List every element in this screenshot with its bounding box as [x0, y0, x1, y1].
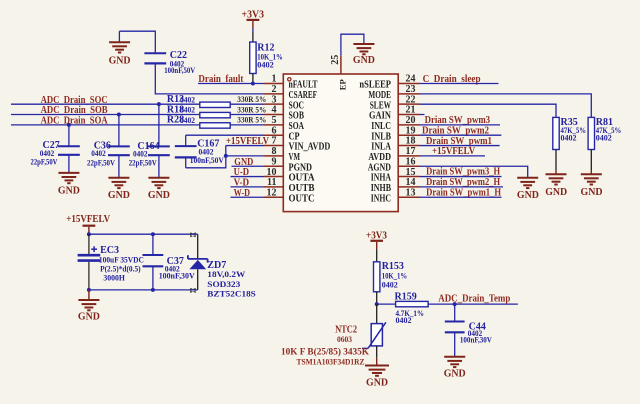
svg-text:GND: GND — [545, 187, 567, 198]
ground GND (EC3) — [78, 290, 100, 322]
junction SOA-C27 — [67, 123, 71, 127]
wire pin 17 — [420, 155, 485, 157]
svg-text:nFAULT: nFAULT — [289, 80, 318, 91]
svg-text:330R 5%: 330R 5% — [237, 95, 266, 104]
net label +15VFELV (pin 7) — [226, 136, 270, 147]
junction bottom-C37 — [151, 288, 155, 292]
svg-text:GND: GND — [517, 190, 539, 201]
svg-text:NTC2: NTC2 — [335, 324, 357, 335]
resistor R35 — [553, 117, 586, 170]
capacitor C44 — [445, 304, 493, 357]
junction SOC-C164 — [157, 102, 161, 106]
op-amp U? IC body — [283, 74, 398, 212]
svg-text:0402: 0402 — [382, 280, 398, 289]
ground GND (C164) — [148, 155, 170, 201]
resistor R18 — [167, 104, 266, 117]
ground GND (C44) — [444, 357, 466, 380]
svg-text:0402: 0402 — [561, 134, 577, 143]
svg-text:OUTA: OUTA — [289, 173, 316, 184]
svg-text:ADC_Drain_Temp: ADC_Drain_Temp — [438, 294, 510, 305]
svg-text:SOD323: SOD323 — [207, 279, 240, 289]
ground GND (EP) — [353, 44, 375, 66]
wire C167 top to pin 6 — [186, 134, 264, 136]
svg-text:GND: GND — [353, 55, 375, 66]
wire pin 16 (AGND) to GND — [420, 166, 528, 178]
svg-text:TSM1A103F34D1RZ: TSM1A103F34D1RZ — [297, 357, 365, 367]
net label Drain SW_pwm3_H — [426, 167, 500, 178]
wire pin 19 — [420, 134, 501, 136]
ground GND (AGND) — [517, 178, 539, 201]
svg-text:100nF,50V: 100nF,50V — [190, 155, 225, 165]
junction SOB-C36 — [117, 113, 121, 117]
wire pin 21 stub — [420, 114, 425, 116]
svg-text:23: 23 — [406, 84, 416, 95]
wire to pin 7 (+15VFELV) — [226, 145, 264, 147]
svg-text:22pF,50V: 22pF,50V — [87, 157, 116, 167]
net label V-D (pin 11) — [234, 178, 250, 189]
net label ADC_Drain_SOA — [41, 116, 109, 127]
svg-text:0402: 0402 — [180, 116, 195, 125]
power +15VFELV (EC3 rail) — [66, 214, 111, 234]
svg-text:14: 14 — [406, 177, 416, 188]
svg-text:EP: EP — [338, 79, 348, 90]
wire ADC_Drain_SOB — [11, 114, 200, 116]
net label Drain SW_pwm1_H — [426, 187, 501, 198]
wire EP to GND — [341, 34, 364, 55]
svg-text:22pF,50V: 22pF,50V — [129, 157, 158, 167]
resistor R159 — [377, 291, 428, 325]
svg-text:13: 13 — [406, 187, 416, 198]
wire ADC_Drain_SOA — [11, 124, 200, 126]
wire C22 to pin 2 — [155, 63, 264, 93]
wire C_Drain_sleep (pin 24) — [420, 83, 499, 85]
svg-text:GND: GND — [108, 190, 130, 201]
svg-text:18V,0.2W: 18V,0.2W — [207, 269, 246, 279]
ground GND (NTC2) — [365, 358, 389, 389]
svg-text:2: 2 — [272, 84, 277, 95]
wire C167 bottom jog — [186, 146, 226, 168]
resistor R28 — [167, 115, 266, 128]
junction pin8 node — [224, 154, 228, 158]
svg-text:INHA: INHA — [371, 173, 392, 184]
resistor R81 — [588, 117, 621, 170]
svg-text:330R 5%: 330R 5% — [237, 105, 266, 114]
wire GND to C22 — [119, 31, 155, 53]
junction bottom-EC3 — [87, 288, 91, 292]
pin 25 EP — [330, 55, 348, 90]
wire pin 14 — [420, 186, 503, 188]
capacitor C164 — [129, 104, 170, 167]
capacitor C27 — [31, 125, 80, 166]
svg-text:AGND: AGND — [368, 162, 391, 173]
ground GND (R81) — [581, 170, 603, 198]
resistor R13 — [167, 94, 266, 107]
wire ADC_Drain_SOC — [11, 103, 200, 105]
ground GND (C27) — [58, 155, 80, 197]
svg-text:330R 5%: 330R 5% — [237, 116, 266, 125]
junction R153-R159-NTC2 — [375, 302, 379, 306]
svg-text:100nF,30V: 100nF,30V — [460, 335, 493, 345]
net label Drian SW_pwm3 — [425, 115, 491, 126]
svg-text:11: 11 — [267, 177, 276, 188]
svg-text:GND: GND — [78, 311, 100, 322]
net label +15VFELV (pin 17) — [432, 146, 476, 157]
svg-text:nSLEEP: nSLEEP — [359, 80, 391, 91]
svg-text:0402: 0402 — [180, 106, 195, 115]
svg-text:7: 7 — [272, 136, 277, 147]
svg-text:R153: R153 — [382, 261, 404, 272]
svg-text:BZT52C18S: BZT52C18S — [207, 289, 256, 299]
IC pin stubs — [264, 84, 420, 198]
wire pin 23 to R81 — [420, 94, 591, 118]
svg-text:OUTC: OUTC — [289, 193, 315, 204]
net label W-D (pin 12) — [234, 188, 251, 199]
IC pin numbers — [267, 74, 416, 199]
svg-text:22: 22 — [406, 94, 416, 105]
wire pin 10 — [231, 176, 265, 178]
wire +15V rail top — [89, 233, 198, 235]
svg-text:SOA: SOA — [289, 121, 305, 132]
svg-text:3: 3 — [272, 94, 277, 105]
svg-text:100nF,50V: 100nF,50V — [164, 65, 196, 75]
wire pin 9 — [232, 165, 265, 167]
svg-text:25: 25 — [330, 55, 341, 65]
svg-text:22pF,50V: 22pF,50V — [31, 156, 59, 166]
svg-text:3000H: 3000H — [103, 273, 125, 283]
net label ADC_Drain_SOC — [41, 95, 108, 106]
wire +15V rail bottom — [89, 289, 198, 291]
junction rail-C37 — [151, 232, 155, 236]
wire pin 12 — [231, 196, 265, 198]
svg-text:0402: 0402 — [180, 95, 195, 104]
wire to pin 8 — [226, 155, 264, 157]
svg-text:GND: GND — [366, 377, 388, 388]
ground GND (C22) — [109, 31, 131, 66]
svg-text:GND: GND — [58, 186, 80, 197]
wire pin 15 — [420, 176, 502, 178]
net label Drain_fault — [198, 74, 244, 85]
svg-text:GND: GND — [109, 56, 131, 67]
resistor R153 — [374, 249, 408, 304]
svg-text:+15VFELV: +15VFELV — [66, 214, 111, 225]
net label Drain SW_pwm2 — [422, 126, 489, 137]
svg-text:INLC: INLC — [371, 121, 391, 132]
IC pin names — [289, 80, 392, 205]
capacitor C167 — [175, 135, 225, 168]
thermistor NTC2 — [281, 304, 386, 366]
power +3V3 (NTC divider) — [366, 231, 387, 250]
capacitor C22 — [144, 50, 195, 75]
junction Temp-C44 — [453, 302, 457, 306]
wire ADC_Drain_Temp — [428, 303, 518, 305]
resistor R12 — [250, 32, 283, 84]
svg-text:0402: 0402 — [396, 316, 412, 325]
ground GND (C36) — [108, 155, 130, 201]
net label Drain SW_pwm2_H — [426, 177, 500, 188]
wire Drain_fault — [198, 83, 264, 85]
capacitor C36 — [87, 115, 130, 168]
net label GND (pin 9) — [234, 157, 253, 168]
svg-text:12: 12 — [267, 187, 277, 198]
wire pin 22 to R35 — [420, 104, 556, 117]
junction rail-EC3 — [87, 232, 91, 236]
wire pin 18 — [420, 145, 500, 147]
net label ADC_Drain_Temp — [438, 294, 510, 305]
wire pin 11 — [231, 186, 265, 188]
svg-text:INHC: INHC — [371, 193, 391, 204]
svg-text:GND: GND — [444, 368, 466, 379]
svg-text:GND: GND — [581, 187, 603, 198]
zener diode ZD7 — [188, 232, 256, 298]
svg-text:10K_1%: 10K_1% — [382, 271, 408, 280]
svg-text:0402: 0402 — [257, 61, 274, 70]
svg-text:R159: R159 — [395, 291, 417, 302]
svg-text:0603: 0603 — [337, 335, 352, 344]
net label ADC_Drain_SOB — [41, 105, 108, 116]
power +3V3 (top) — [242, 10, 265, 29]
net label C_Drain_sleep — [423, 74, 481, 85]
net label Drain SW_pwm1 — [426, 136, 492, 147]
capacitor EC3 (polarized) — [78, 234, 144, 290]
svg-text:100nF,30V: 100nF,30V — [159, 271, 196, 281]
svg-text:PGND: PGND — [289, 162, 313, 173]
net label U-D (pin 10) — [234, 167, 250, 178]
svg-text:0402: 0402 — [596, 134, 612, 143]
svg-text:GND: GND — [148, 190, 170, 201]
wire pin 13 — [420, 196, 502, 198]
wire pin 20 — [420, 124, 500, 126]
svg-text:18: 18 — [406, 136, 416, 147]
wire +3V3 to R12 — [252, 29, 254, 32]
ground GND (R35) — [545, 170, 567, 198]
capacitor C37 — [143, 234, 196, 290]
svg-text:+15VFELV: +15VFELV — [226, 136, 270, 147]
junction R12-Drain_fault — [251, 82, 255, 86]
